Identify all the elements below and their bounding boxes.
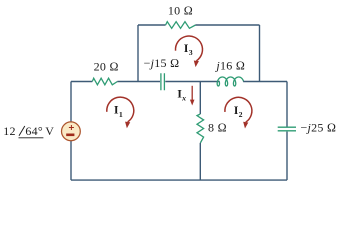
- svg-text:20 Ω: 20 Ω: [94, 60, 119, 74]
- svg-text:j16 Ω: j16 Ω: [214, 59, 245, 73]
- capacitor -j15 Ohm plates: [161, 73, 165, 90]
- current Ix arrow: [191, 86, 193, 101]
- voltage source minus bar: [66, 134, 74, 137]
- wire: top loop right vertical: [259, 25, 261, 82]
- svg-text:I1: I1: [114, 103, 123, 119]
- wire: left vertical with source: [70, 82, 72, 181]
- wire: middle segment 20ohm to -j15 cap: [117, 81, 160, 83]
- wire: middle segment cap to 8ohm node: [165, 81, 219, 83]
- wire: middle segment inductor to right corner: [243, 81, 287, 83]
- resistor 8 Ohm: [197, 114, 204, 143]
- svg-text:Ix: Ix: [177, 86, 186, 102]
- svg-text:8 Ω: 8 Ω: [208, 120, 227, 134]
- circuit schematic 340x184: [0, 0, 340, 184]
- capacitor -j25 Ohm plates: [278, 127, 296, 131]
- voltage source 12/64 V circle: [62, 122, 81, 141]
- svg-text:64°: 64°: [25, 124, 43, 138]
- wire: 8 ohm branch top: [199, 82, 201, 115]
- svg-text:10 Ω: 10 Ω: [168, 4, 193, 18]
- svg-text:V: V: [45, 124, 54, 138]
- mesh current arrow I3: [175, 36, 202, 61]
- wire: top segment right of 10ohm: [196, 24, 260, 26]
- mesh current arrow I1: [107, 97, 134, 122]
- mesh current arrow I2: [225, 97, 252, 122]
- resistor 10 Ohm: [166, 22, 196, 29]
- wire: right vertical below cap: [286, 132, 288, 181]
- wire: 8 ohm branch bottom: [199, 143, 201, 180]
- wire: right vertical above cap: [286, 82, 288, 127]
- svg-text:12: 12: [3, 124, 16, 138]
- svg-text:I2: I2: [234, 103, 243, 119]
- resistor 20 Ohm: [92, 78, 117, 85]
- svg-text:−j25 Ω: −j25 Ω: [301, 120, 337, 134]
- wire: bottom: [71, 179, 287, 181]
- wire: top loop left vertical: [137, 25, 139, 82]
- inductor j16 Ohm: [217, 77, 243, 86]
- voltage source plus sign: [69, 125, 74, 130]
- wire: top segment left of 10ohm: [138, 24, 166, 26]
- svg-text:I3: I3: [184, 41, 193, 57]
- wire: middle left segment: [71, 81, 92, 83]
- svg-text:−j15 Ω: −j15 Ω: [144, 56, 180, 70]
